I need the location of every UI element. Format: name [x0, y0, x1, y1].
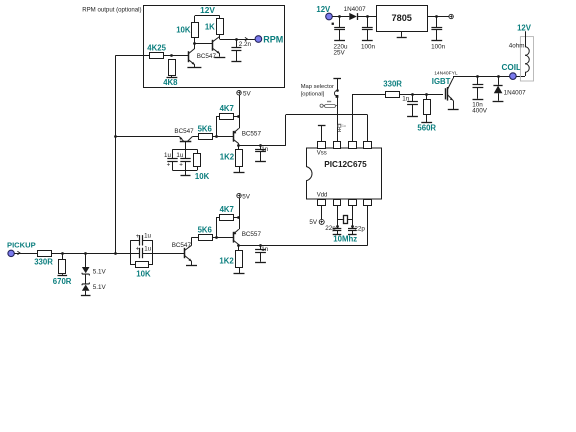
svg-text:1u: 1u — [144, 245, 151, 252]
svg-text:400V: 400V — [472, 107, 488, 114]
svg-text:5V: 5V — [242, 193, 251, 200]
svg-text:5K6: 5K6 — [198, 125, 213, 134]
svg-text:1u: 1u — [342, 124, 346, 128]
svg-text:+: + — [167, 162, 171, 169]
svg-text:RPM: RPM — [263, 34, 283, 44]
svg-text:5.1V: 5.1V — [93, 284, 107, 291]
svg-text:BC557: BC557 — [242, 231, 262, 238]
svg-text:100n: 100n — [431, 44, 446, 51]
svg-text:22p: 22p — [354, 225, 365, 232]
svg-text:+: + — [136, 233, 140, 240]
svg-text:1u: 1u — [144, 233, 151, 240]
svg-text:5V: 5V — [243, 91, 252, 98]
svg-text:22p: 22p — [325, 225, 336, 232]
svg-text:Vdd: Vdd — [317, 193, 328, 199]
svg-text:12V: 12V — [200, 5, 215, 15]
svg-text:BC547: BC547 — [197, 53, 217, 60]
svg-text:4K8: 4K8 — [163, 78, 178, 87]
svg-text:RPM output (optional): RPM output (optional) — [82, 6, 141, 13]
svg-text:BC557: BC557 — [242, 130, 262, 137]
svg-text:COIL: COIL — [502, 63, 522, 72]
svg-text:1n: 1n — [261, 246, 269, 253]
svg-text:25V: 25V — [334, 50, 346, 57]
svg-text:560R: 560R — [417, 124, 436, 133]
svg-text:670R: 670R — [53, 277, 72, 286]
svg-text:1N4007: 1N4007 — [344, 6, 367, 13]
svg-text:1K2: 1K2 — [219, 257, 234, 266]
svg-text:Vss: Vss — [317, 151, 327, 157]
svg-text:1K2: 1K2 — [220, 153, 235, 162]
svg-text:5V: 5V — [309, 219, 318, 226]
svg-text:PICKUP: PICKUP — [7, 240, 36, 249]
svg-text:10K: 10K — [176, 26, 191, 35]
svg-text:Map selector: Map selector — [301, 84, 334, 90]
svg-text:+: + — [179, 162, 183, 169]
svg-text:IGBT: IGBT — [432, 77, 451, 86]
svg-text:1N4007: 1N4007 — [504, 90, 527, 97]
svg-text:4K25: 4K25 — [147, 44, 166, 53]
svg-text:10Mhz: 10Mhz — [333, 235, 357, 244]
svg-text:1u: 1u — [176, 152, 183, 159]
svg-text:330R: 330R — [383, 80, 402, 89]
svg-text:10K: 10K — [136, 270, 151, 279]
svg-text:2.2n: 2.2n — [239, 41, 252, 48]
svg-text:10K: 10K — [195, 172, 210, 181]
svg-text:330R: 330R — [34, 258, 53, 267]
svg-text:14N40FYL: 14N40FYL — [434, 71, 458, 77]
svg-text:4K7: 4K7 — [220, 205, 234, 214]
svg-text:5K6: 5K6 — [198, 226, 213, 235]
svg-text:4ohm: 4ohm — [509, 42, 525, 49]
svg-text:+: + — [136, 246, 140, 253]
svg-text:100n: 100n — [361, 44, 376, 51]
svg-text:5.1V: 5.1V — [93, 269, 107, 276]
svg-text:7805: 7805 — [391, 13, 411, 23]
svg-text:1u: 1u — [164, 152, 171, 159]
svg-text:PIC12C675: PIC12C675 — [324, 160, 367, 169]
svg-text:1K: 1K — [205, 23, 215, 32]
svg-text:12V: 12V — [517, 23, 532, 32]
svg-text:4K7: 4K7 — [220, 104, 234, 113]
svg-text:BC547: BC547 — [174, 128, 194, 135]
svg-text:[optional]: [optional] — [301, 91, 325, 97]
svg-text:1n: 1n — [261, 146, 269, 153]
